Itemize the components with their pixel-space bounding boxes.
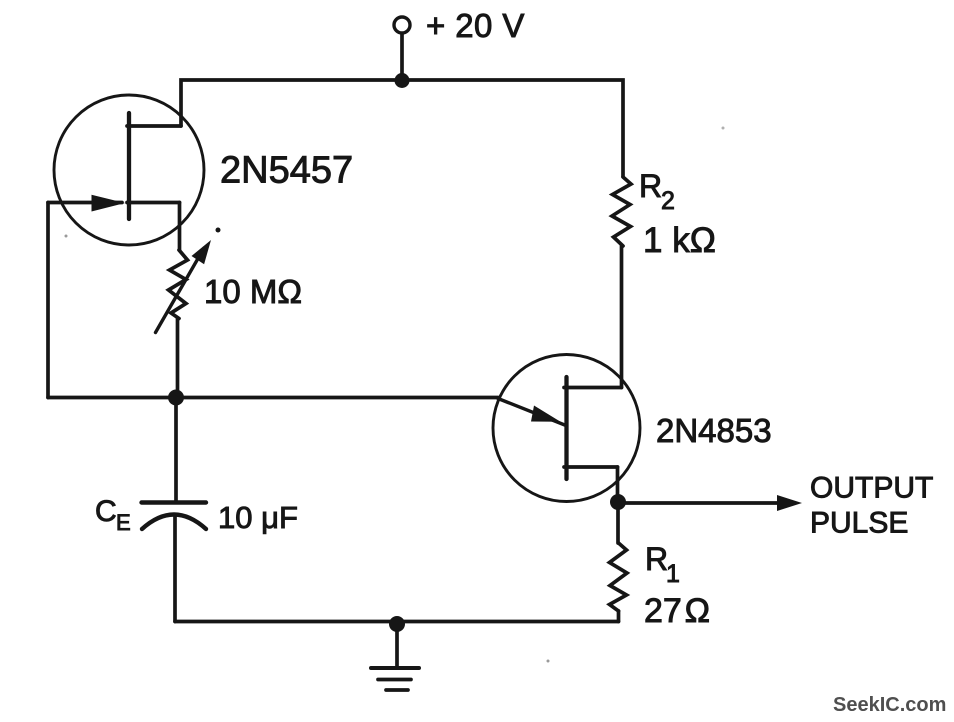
transistor Q2 2N4853 xyxy=(493,355,640,503)
wire capacitor to bottom rail xyxy=(173,516,177,622)
resistor 10 Mohm variable xyxy=(156,203,221,398)
terminal +20V xyxy=(394,17,410,33)
junction top rail xyxy=(395,73,410,88)
svg-text:10 MΩ: 10 MΩ xyxy=(204,273,302,310)
svg-text:1 kΩ: 1 kΩ xyxy=(643,221,716,260)
svg-text:2: 2 xyxy=(661,187,675,215)
resistor R2 xyxy=(612,177,631,388)
wire middle rail xyxy=(48,396,498,400)
svg-text:10 μF: 10 μF xyxy=(218,500,298,535)
node junction middle xyxy=(168,390,184,406)
svg-text:OUTPUT: OUTPUT xyxy=(810,472,933,505)
ground xyxy=(371,616,419,690)
speck xyxy=(65,235,68,238)
label CE xyxy=(95,495,131,535)
wire terminal to top rail xyxy=(400,34,404,81)
svg-text:R: R xyxy=(645,541,668,577)
wire top rail xyxy=(181,80,623,176)
svg-text:+ 20 V: + 20 V xyxy=(426,7,525,44)
svg-text:2N4853: 2N4853 xyxy=(656,412,772,449)
label OUTPUT PULSE xyxy=(810,472,933,540)
speck xyxy=(547,660,550,663)
svg-text:1: 1 xyxy=(666,560,680,588)
svg-text:E: E xyxy=(116,510,131,535)
svg-text:PULSE: PULSE xyxy=(810,507,908,540)
wire bottom rail xyxy=(175,620,619,624)
wire gate Q1 with arrowhead xyxy=(48,195,125,212)
label R1 xyxy=(645,541,680,588)
svg-text:C: C xyxy=(95,495,117,528)
svg-text:R: R xyxy=(639,168,662,204)
node output junction xyxy=(610,494,626,510)
wire output arrow xyxy=(618,495,802,511)
speck xyxy=(722,127,725,130)
svg-text:SeekIC.com: SeekIC.com xyxy=(833,694,946,716)
label R2 xyxy=(639,168,675,215)
resistor R1 xyxy=(610,502,628,622)
wire left vertical xyxy=(46,203,50,398)
capacitor CE xyxy=(142,503,207,530)
svg-text:2N5457: 2N5457 xyxy=(220,150,353,192)
transistor Q1 2N5457 xyxy=(54,95,204,245)
svg-text:27 Ω: 27 Ω xyxy=(644,592,710,630)
wire gate Q2 with arrowhead xyxy=(498,399,566,426)
wire junction to capacitor xyxy=(174,398,178,503)
